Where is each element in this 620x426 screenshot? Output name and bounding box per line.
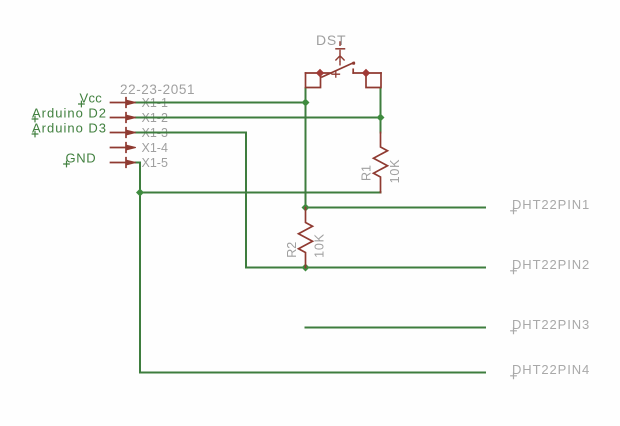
connector X1 pin 4 bbox=[111, 143, 136, 153]
svg-text:DHT22PIN1: DHT22PIN1 bbox=[512, 197, 590, 212]
switch left pin diamond bbox=[316, 69, 324, 77]
wire DHT22PIN1 row bbox=[306, 207, 486, 209]
svg-text:DHT22PIN3: DHT22PIN3 bbox=[512, 317, 590, 332]
svg-text:DHT22PIN4: DHT22PIN4 bbox=[512, 362, 590, 377]
resistor R1 bbox=[374, 133, 388, 193]
connector X1 pin 1 bbox=[111, 98, 136, 108]
resistor R2 bbox=[299, 208, 313, 268]
net label Arduino D3 bbox=[32, 120, 107, 137]
svg-text:Arduino D3: Arduino D3 bbox=[32, 120, 107, 135]
net label Arduino D2 bbox=[32, 105, 107, 122]
wire switch left leg bbox=[305, 88, 307, 208]
svg-text:DHT22PIN2: DHT22PIN2 bbox=[512, 257, 590, 272]
net label DHT22PIN4 bbox=[511, 362, 590, 379]
net label DHT22PIN3 bbox=[511, 317, 590, 334]
switch plunger dashes bbox=[339, 42, 341, 65]
svg-text:10K: 10K bbox=[388, 159, 402, 184]
net label DHT22PIN1 bbox=[511, 197, 590, 214]
junction at R2 bottom DHT22PIN2 bbox=[302, 264, 310, 272]
wire switch right leg to R1 top bbox=[380, 88, 382, 133]
svg-text:GND: GND bbox=[66, 150, 97, 165]
wire Arduino D2 row bbox=[136, 117, 381, 119]
junction at GND corner bbox=[136, 189, 144, 197]
switch plunger arrow bbox=[336, 55, 344, 62]
switch actuator arm bbox=[322, 63, 354, 78]
svg-text:Vcc: Vcc bbox=[80, 90, 103, 105]
switch right pin hook bbox=[366, 73, 381, 88]
switch plunger cap bbox=[336, 48, 345, 50]
svg-text:X1-5: X1-5 bbox=[142, 156, 168, 170]
wire Arduino D3 row and drop bbox=[136, 133, 247, 268]
connector X1 pin 2 bbox=[111, 113, 136, 123]
net label GND bbox=[64, 150, 97, 167]
switch left contact bar bbox=[306, 72, 332, 74]
svg-text:22-23-2051: 22-23-2051 bbox=[120, 82, 195, 97]
wire Vcc row bbox=[136, 102, 306, 104]
switch right pin diamond bbox=[362, 69, 370, 77]
svg-text:R1: R1 bbox=[360, 165, 374, 181]
net label DHT22PIN2 bbox=[511, 257, 590, 274]
svg-text:10K: 10K bbox=[313, 233, 327, 258]
connector X1 pin 5 bbox=[111, 158, 136, 168]
net label Vcc bbox=[79, 90, 103, 107]
switch actuator cross bbox=[332, 71, 340, 77]
wire GND stub and left bus down to DHT22PIN4 bbox=[136, 163, 486, 373]
connector X1 pin 3 bbox=[111, 128, 136, 138]
switch right contact bar bbox=[353, 72, 381, 74]
switch DST body bbox=[306, 42, 382, 88]
junction at Vcc and switch left leg bbox=[302, 99, 310, 107]
wire DHT22PIN2 row bbox=[246, 267, 485, 269]
svg-text:DST: DST bbox=[316, 32, 346, 48]
wire GND row to R1 bottom bbox=[140, 191, 381, 194]
svg-text:R2: R2 bbox=[285, 242, 299, 258]
svg-text:X1-4: X1-4 bbox=[142, 141, 168, 155]
svg-text:Arduino D2: Arduino D2 bbox=[32, 105, 107, 120]
switch right fixed contact tick bbox=[352, 69, 354, 73]
junction at D2 and switch right leg bbox=[377, 114, 385, 122]
switch left pin hook bbox=[306, 73, 321, 88]
wire DHT22PIN3 row bbox=[306, 327, 486, 329]
junction at R2 top DHT22PIN1 bbox=[302, 204, 310, 212]
